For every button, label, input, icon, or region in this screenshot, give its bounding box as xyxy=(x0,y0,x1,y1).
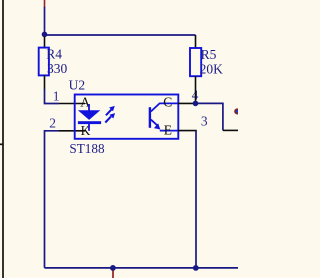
emitter to pin3 xyxy=(160,130,178,132)
svg-text:20K: 20K xyxy=(200,61,224,76)
wire VCC stub (maroon) xyxy=(44,0,46,7)
LED anode lead xyxy=(88,104,90,111)
svg-text:R5: R5 xyxy=(201,47,217,62)
wire top horizontal to R5 xyxy=(45,34,196,36)
LED cathode lead xyxy=(88,124,90,131)
svg-text:C: C xyxy=(163,95,172,110)
svg-text:3: 3 xyxy=(201,114,208,129)
node A junction dot xyxy=(42,32,48,38)
svg-text:U2: U2 xyxy=(69,78,86,93)
svg-text:E: E xyxy=(164,122,172,137)
pin 2 xyxy=(59,130,85,132)
LED D triangle xyxy=(78,110,100,120)
wire bottom rail xyxy=(45,267,239,269)
emitter arrowhead xyxy=(154,123,160,129)
transistor emitter line xyxy=(151,120,158,126)
svg-text:330: 330 xyxy=(47,61,68,76)
optocoupler U2 body xyxy=(75,95,179,139)
light arrow 2 xyxy=(105,113,115,122)
pin stub right edge (black) xyxy=(223,129,238,131)
wire pin2 corner xyxy=(45,131,59,268)
node 4 junction dot xyxy=(193,101,199,107)
junction dot bottom left xyxy=(110,265,116,271)
transistor collector line xyxy=(151,103,178,111)
pin 4 xyxy=(178,102,196,104)
junction dot bottom right xyxy=(193,265,199,271)
svg-text:1: 1 xyxy=(53,89,60,104)
wire R4 to pin 1 xyxy=(45,89,59,104)
light arrow 1 xyxy=(106,106,115,115)
pin 1 xyxy=(59,103,85,105)
LED cathode bar xyxy=(78,121,101,124)
sheet border (left edge) xyxy=(0,0,4,278)
wire node4 to right edge xyxy=(196,103,223,130)
wire pin3 leg down xyxy=(195,131,197,268)
resistor R4 xyxy=(39,37,49,90)
resistor R5 xyxy=(190,35,201,101)
svg-text:R4: R4 xyxy=(46,47,62,62)
wire vertical into node A xyxy=(44,7,46,34)
clipped net label character at right edge xyxy=(235,109,239,113)
pin 3 xyxy=(178,130,197,132)
svg-text:ST188: ST188 xyxy=(69,141,105,156)
ground stub (dark red) xyxy=(112,271,114,278)
phototransistor Q base bar xyxy=(149,107,151,128)
svg-text:2: 2 xyxy=(49,116,56,131)
